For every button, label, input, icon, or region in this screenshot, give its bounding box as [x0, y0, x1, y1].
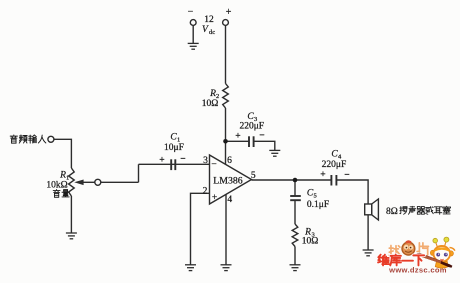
svg-text:+: + [212, 193, 217, 203]
svg-text:3: 3 [203, 156, 208, 166]
svg-text:+: + [159, 156, 164, 166]
svg-text:+: + [235, 132, 240, 142]
svg-text:−: − [344, 171, 349, 181]
svg-text:4: 4 [227, 195, 232, 205]
svg-text:5: 5 [251, 171, 256, 181]
svg-text:0.1μF: 0.1μF [307, 200, 329, 210]
svg-text:+: + [320, 170, 325, 180]
svg-text:LM386: LM386 [213, 176, 242, 187]
svg-text:2: 2 [203, 187, 208, 197]
svg-text:−: − [188, 7, 194, 18]
svg-text:220μF: 220μF [239, 122, 264, 132]
svg-text:12: 12 [204, 15, 214, 25]
svg-text:+: + [226, 7, 232, 18]
svg-text:8Ω: 8Ω [386, 207, 398, 217]
svg-text:−: − [259, 131, 264, 141]
svg-text:−: − [180, 155, 185, 165]
svg-text:10Ω: 10Ω [202, 99, 219, 109]
svg-text:10kΩ: 10kΩ [46, 180, 67, 190]
svg-text:6: 6 [227, 156, 232, 166]
svg-text:−: − [211, 160, 216, 170]
svg-text:10Ω: 10Ω [302, 236, 319, 246]
svg-text:V: V [202, 25, 209, 35]
svg-text:www.dzsc.com: www.dzsc.com [388, 266, 447, 275]
svg-text:10μF: 10μF [164, 143, 184, 153]
svg-text:5: 5 [314, 193, 317, 200]
svg-text:220μF: 220μF [322, 160, 347, 170]
svg-text:dc: dc [209, 29, 215, 36]
